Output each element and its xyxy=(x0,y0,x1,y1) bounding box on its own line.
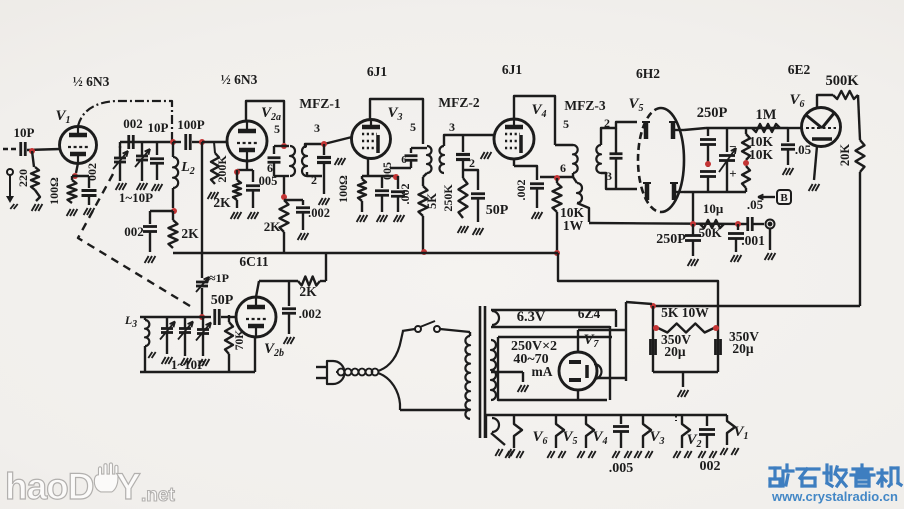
svg-text:100P: 100P xyxy=(177,117,205,132)
svg-text:V1: V1 xyxy=(733,424,748,442)
svg-text:6J1: 6J1 xyxy=(367,64,388,79)
svg-text:−: − xyxy=(729,139,736,154)
svg-text:.005: .005 xyxy=(609,461,634,476)
svg-text:100Ω: 100Ω xyxy=(336,175,350,203)
svg-text:10P: 10P xyxy=(148,120,169,135)
svg-text:200K: 200K xyxy=(215,155,229,183)
svg-text:3: 3 xyxy=(314,121,320,135)
svg-text:002: 002 xyxy=(700,459,721,474)
svg-text:20μ: 20μ xyxy=(732,341,754,356)
svg-text:10K: 10K xyxy=(749,147,774,162)
svg-text:2K: 2K xyxy=(264,219,282,234)
svg-text:50K: 50K xyxy=(698,225,722,240)
svg-text:6: 6 xyxy=(560,161,566,175)
svg-text:MFZ-3: MFZ-3 xyxy=(564,98,605,113)
svg-text:V5: V5 xyxy=(562,429,577,447)
svg-text:10P: 10P xyxy=(14,125,35,140)
svg-text:70K: 70K xyxy=(234,330,246,351)
svg-text:V3: V3 xyxy=(649,429,664,447)
svg-text:5: 5 xyxy=(410,120,416,134)
svg-text:.002: .002 xyxy=(308,206,330,220)
svg-text:V1: V1 xyxy=(55,108,70,126)
svg-text:.05: .05 xyxy=(747,197,764,212)
svg-text:MFZ-1: MFZ-1 xyxy=(299,96,340,111)
svg-text:½ 6N3: ½ 6N3 xyxy=(73,74,110,89)
svg-text:MFZ-2: MFZ-2 xyxy=(438,95,479,110)
svg-text:B: B xyxy=(780,192,788,204)
svg-text:+: + xyxy=(729,166,736,181)
svg-text:V2b: V2b xyxy=(264,341,284,359)
svg-text:V3: V3 xyxy=(387,105,402,123)
svg-text:www.crystalradio.cn: www.crystalradio.cn xyxy=(771,489,898,504)
svg-text:V6: V6 xyxy=(789,92,804,110)
svg-text:2K: 2K xyxy=(181,226,199,241)
svg-text:L3: L3 xyxy=(124,313,137,330)
svg-text:.001: .001 xyxy=(741,233,765,248)
svg-text:.net: .net xyxy=(141,485,175,506)
svg-text:50P: 50P xyxy=(486,203,509,218)
svg-text:250P: 250P xyxy=(697,105,728,121)
svg-text:250P: 250P xyxy=(656,232,686,247)
svg-text:V4: V4 xyxy=(592,429,607,447)
svg-text:Y: Y xyxy=(116,466,141,507)
svg-text:5K 10W: 5K 10W xyxy=(661,305,709,320)
svg-text:6E2: 6E2 xyxy=(788,62,811,77)
svg-text:20K: 20K xyxy=(838,144,852,167)
svg-text:≈1P: ≈1P xyxy=(209,271,229,285)
svg-text:220: 220 xyxy=(16,169,30,187)
svg-text:V4: V4 xyxy=(531,102,546,120)
svg-text:V6: V6 xyxy=(532,429,547,447)
svg-text:½ 6N3: ½ 6N3 xyxy=(221,72,258,87)
svg-text:.002: .002 xyxy=(514,180,528,201)
svg-text:5K: 5K xyxy=(425,193,439,209)
svg-text:002: 002 xyxy=(124,224,144,239)
svg-text:2K: 2K xyxy=(213,195,231,210)
svg-text:mA: mA xyxy=(532,364,553,379)
svg-text:3: 3 xyxy=(606,169,612,183)
svg-text:.002: .002 xyxy=(398,184,412,205)
svg-text:V2a: V2a xyxy=(261,105,281,123)
svg-text:1W: 1W xyxy=(563,218,584,233)
svg-text:L2: L2 xyxy=(180,160,195,177)
svg-text:3: 3 xyxy=(449,120,455,134)
svg-text:6C11: 6C11 xyxy=(239,254,269,269)
svg-text:2: 2 xyxy=(604,116,610,130)
svg-text:250K: 250K xyxy=(441,184,455,212)
svg-text:2K: 2K xyxy=(299,284,317,299)
svg-text:6Z4: 6Z4 xyxy=(578,306,601,321)
svg-text:V7: V7 xyxy=(583,332,599,350)
svg-text:V5: V5 xyxy=(628,96,643,114)
svg-text:6H2: 6H2 xyxy=(636,66,660,81)
svg-text:500K: 500K xyxy=(825,73,859,89)
svg-text:5: 5 xyxy=(274,122,280,136)
svg-text:20μ: 20μ xyxy=(664,344,686,359)
svg-text:50P: 50P xyxy=(211,293,234,308)
svg-text:1M: 1M xyxy=(756,107,777,123)
svg-text:6: 6 xyxy=(267,161,273,175)
svg-text:10μ: 10μ xyxy=(703,201,724,216)
svg-text:002: 002 xyxy=(123,116,143,131)
svg-text:.002: .002 xyxy=(299,306,322,321)
svg-text:haoD: haoD xyxy=(5,466,94,507)
svg-text:100Ω: 100Ω xyxy=(47,177,61,205)
svg-text:1~10P: 1~10P xyxy=(119,190,153,205)
svg-text:2: 2 xyxy=(469,156,475,170)
svg-text:005: 005 xyxy=(380,162,394,180)
svg-text:6.3V: 6.3V xyxy=(517,309,546,325)
svg-text:6J1: 6J1 xyxy=(502,62,523,77)
svg-text:1~10P: 1~10P xyxy=(171,357,205,372)
svg-text:5: 5 xyxy=(563,117,569,131)
svg-text:002: 002 xyxy=(85,163,99,181)
